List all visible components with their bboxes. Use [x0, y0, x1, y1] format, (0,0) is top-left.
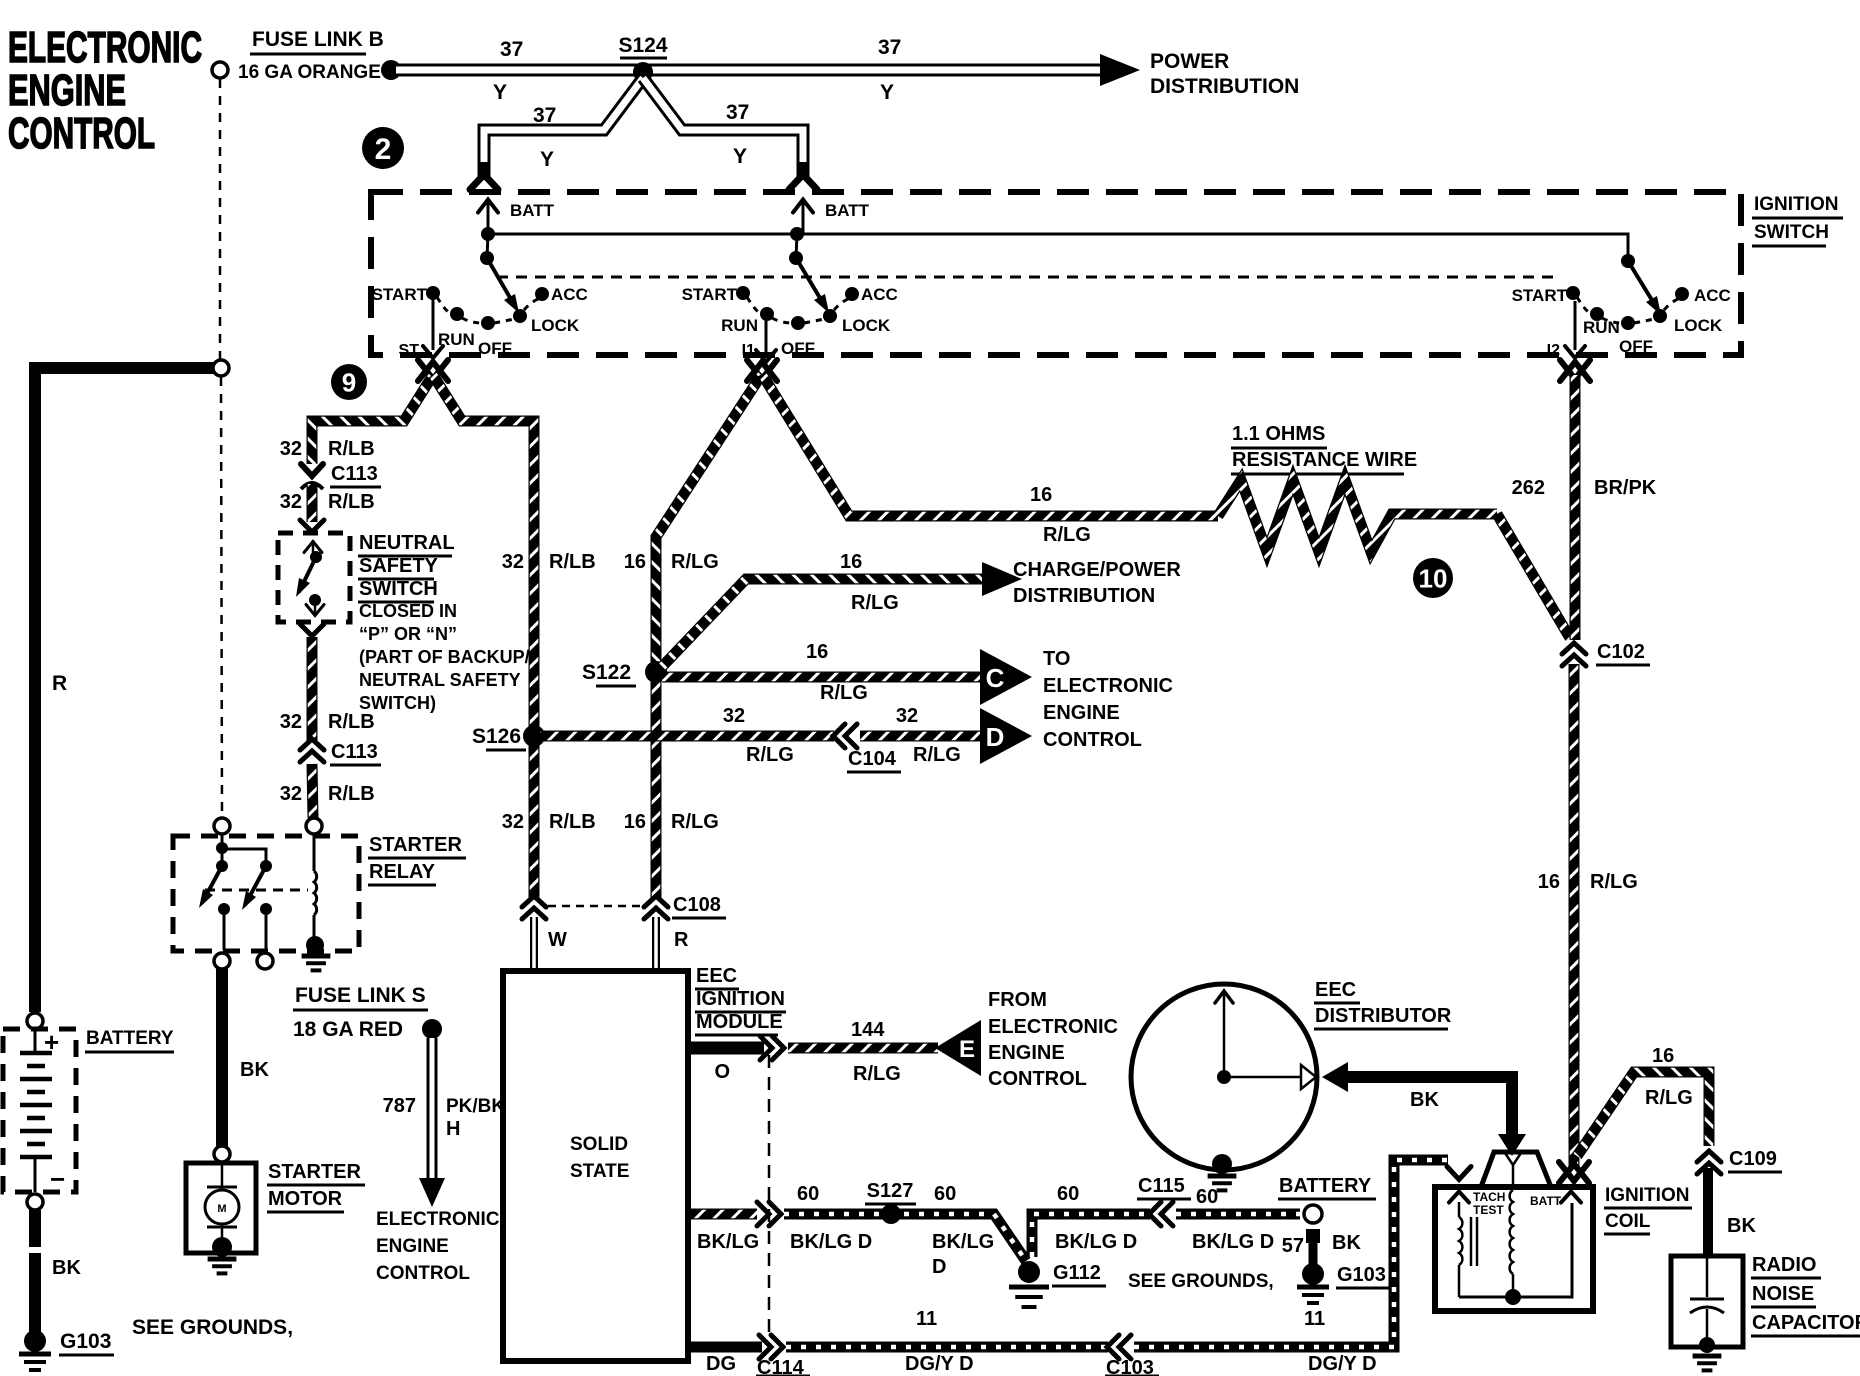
svg-text:CONTROL: CONTROL [376, 1263, 470, 1284]
svg-text:LOCK: LOCK [1674, 316, 1723, 335]
wire BK/LG D run 1 [784, 1214, 1026, 1261]
svg-text:RUN: RUN [721, 316, 758, 335]
connector C108 W [522, 896, 546, 919]
starter motor ground dot [212, 1237, 232, 1257]
connector C103 [1107, 1335, 1131, 1359]
svg-text:BK/LG D: BK/LG D [1192, 1231, 1274, 1253]
svg-text:ELECTRONIC: ELECTRONIC [376, 1209, 500, 1230]
svg-text:E: E [959, 1036, 975, 1063]
arrow terminal I2 [1560, 362, 1590, 381]
arrow terminal I1 [747, 362, 777, 381]
coil common dot [1505, 1289, 1521, 1305]
svg-text:57: 57 [1282, 1235, 1304, 1257]
svg-text:BATTERY: BATTERY [86, 1028, 174, 1049]
C108 dashed link [548, 905, 642, 908]
wire O stub [688, 1042, 764, 1055]
NSS bottom terminal [314, 600, 317, 614]
connector C113 upper [301, 464, 323, 476]
ground dot G112 [1018, 1261, 1040, 1283]
wire ST output arrow [432, 299, 435, 350]
wire BK/LG D run 3 [1176, 1209, 1300, 1220]
svg-text:NEUTRAL SAFETY: NEUTRAL SAFETY [359, 670, 521, 690]
wire DG/Y D run 2 [1134, 1160, 1448, 1347]
svg-text:BATT: BATT [510, 201, 555, 220]
svg-text:R: R [52, 672, 67, 695]
wire DG stub [688, 1342, 762, 1353]
svg-text:BK: BK [240, 1059, 269, 1081]
svg-text:144: 144 [851, 1019, 885, 1041]
svg-text:37: 37 [533, 104, 556, 127]
svg-text:32: 32 [502, 811, 524, 833]
svg-text:MOTOR: MOTOR [268, 1188, 343, 1210]
svg-text:DISTRIBUTOR: DISTRIBUTOR [1315, 1005, 1452, 1027]
svg-text:BK/LG: BK/LG [697, 1231, 759, 1253]
svg-text:D: D [986, 722, 1005, 752]
svg-text:R/LB: R/LB [328, 491, 375, 513]
relay coil [313, 834, 316, 871]
wire BK relay to starter motor [216, 969, 228, 1146]
svg-text:PK/BK: PK/BK [446, 1096, 505, 1117]
svg-text:SWITCH: SWITCH [359, 578, 438, 600]
svg-text:R/LG: R/LG [1645, 1087, 1693, 1109]
svg-text:CAPACITOR: CAPACITOR [1752, 1312, 1860, 1334]
svg-text:C: C [986, 663, 1005, 693]
svg-text:Y: Y [540, 148, 554, 171]
svg-text:R/LG: R/LG [913, 744, 961, 766]
svg-text:BATT: BATT [825, 201, 870, 220]
svg-text:2: 2 [375, 133, 392, 166]
wire resistance to C102 [1497, 514, 1570, 638]
svg-text:BK: BK [52, 1257, 81, 1279]
svg-text:60: 60 [1057, 1183, 1079, 1205]
ignition sw position dots cluster2 [736, 286, 750, 300]
svg-text:1.1 OHMS: 1.1 OHMS [1232, 423, 1325, 445]
NSS blade [299, 557, 316, 592]
svg-text:OFF: OFF [478, 339, 512, 358]
wire battery feed R [35, 368, 214, 1012]
svg-text:DISTRIBUTION: DISTRIBUTION [1013, 585, 1155, 607]
svg-text:EEC: EEC [1315, 979, 1356, 1001]
svg-text:DG/Y D: DG/Y D [905, 1353, 974, 1375]
svg-text:SEE GROUNDS,: SEE GROUNDS, [132, 1316, 293, 1339]
svg-text:FROM: FROM [988, 989, 1047, 1011]
svg-text:ACC: ACC [551, 285, 588, 304]
svg-text:ST: ST [399, 342, 420, 359]
NSS contact top [310, 551, 322, 563]
starter motor ground [208, 1259, 237, 1273]
wire S124 branch left to BATT [484, 78, 643, 172]
svg-text:TEST: TEST [1473, 1203, 1504, 1217]
relay contact dots top [216, 842, 228, 854]
ignition coil box [1435, 1187, 1593, 1311]
wire C104 to D arrow [860, 731, 980, 742]
svg-text:C115: C115 [1138, 1175, 1185, 1197]
arrowhead BK into distributor [1322, 1062, 1348, 1092]
starter relay dashed box [173, 836, 359, 951]
svg-text:ENGINE: ENGINE [1043, 702, 1120, 724]
distributor rotor arm [1224, 1076, 1301, 1079]
svg-text:S126: S126 [472, 725, 521, 748]
svg-text:CONTROL: CONTROL [988, 1068, 1087, 1090]
arrowhead into ignition switch left [478, 162, 491, 180]
splice S126 [523, 725, 545, 747]
svg-text:R/LG: R/LG [851, 592, 899, 614]
svg-text:G103: G103 [60, 1330, 111, 1353]
connector C115 [1149, 1202, 1173, 1226]
wire S124 branch right to BATT [643, 78, 803, 172]
neutral safety switch dashed box [278, 533, 350, 622]
svg-text:ELECTRONIC: ELECTRONIC [988, 1016, 1118, 1038]
svg-text:Y: Y [733, 145, 747, 168]
svg-text:R/LG: R/LG [746, 744, 794, 766]
arrow C [980, 649, 1032, 705]
arrow out of neutral safety switch [300, 624, 324, 636]
svg-text:(PART OF BACKUP/: (PART OF BACKUP/ [359, 647, 530, 667]
relay dashed actuator line [205, 889, 308, 892]
arrow terminal ST [418, 362, 448, 381]
svg-text:BK/LG: BK/LG [932, 1231, 994, 1253]
svg-text:I2: I2 [1547, 342, 1560, 359]
wire 16 R/LG to resistance wire [762, 374, 1218, 516]
node bus dot 1 [481, 227, 495, 241]
wire charge/power distribution [656, 579, 986, 673]
ignition switch blade 2 (BATT to LOCK) [796, 258, 826, 308]
wire drop to blade 2 [796, 234, 797, 258]
svg-text:37: 37 [500, 38, 523, 61]
svg-text:−: − [50, 1164, 65, 1194]
relay contact dots bottom [218, 903, 230, 915]
svg-text:TO: TO [1043, 648, 1070, 670]
svg-text:R/LB: R/LB [549, 551, 596, 573]
arrowhead into ignition switch right [797, 162, 810, 180]
svg-text:W: W [548, 929, 567, 951]
svg-text:C108: C108 [673, 894, 721, 916]
wire BATT terminal 1 [487, 198, 490, 234]
svg-text:TACH: TACH [1473, 1190, 1505, 1204]
ground dot G103 left [24, 1330, 46, 1352]
relay blade 2 [245, 866, 266, 905]
svg-text:START: START [1512, 286, 1568, 305]
wire ignition switch internal bus [488, 234, 1628, 259]
svg-text:S122: S122 [582, 661, 631, 684]
arrow electronic engine control [419, 1178, 445, 1207]
svg-text:C114: C114 [757, 1357, 805, 1376]
wire BK/LG stub [690, 1209, 757, 1220]
relay ground [302, 956, 331, 970]
connector C104 [833, 724, 857, 748]
svg-text:32: 32 [723, 705, 745, 727]
wire 262 BR/PK from I2 [1570, 375, 1581, 640]
ground symbol G112 [1009, 1287, 1049, 1307]
node blade pivot 1 [480, 251, 494, 265]
svg-text:DG/Y D: DG/Y D [1308, 1353, 1377, 1375]
svg-text:LOCK: LOCK [531, 316, 580, 335]
NSS contact bottom [309, 594, 321, 606]
svg-text:C104: C104 [848, 748, 897, 770]
battery terminal circle right [1304, 1205, 1322, 1223]
starter motor symbol [221, 1163, 224, 1187]
fuse link S splice dot [422, 1019, 442, 1039]
ignition switch dashed box [371, 192, 1741, 355]
svg-text:BATT: BATT [1530, 1194, 1562, 1208]
svg-text:NOISE: NOISE [1752, 1283, 1814, 1305]
svg-text:ACC: ACC [861, 285, 898, 304]
svg-text:32: 32 [280, 438, 302, 460]
svg-text:SAFETY: SAFETY [359, 555, 439, 577]
ignition coil cap trapezoid [1481, 1152, 1551, 1187]
svg-text:STARTER: STARTER [268, 1161, 362, 1183]
svg-text:OFF: OFF [1619, 337, 1653, 356]
wire 37 Y bus to power distribution [396, 64, 1106, 77]
svg-text:11: 11 [1304, 1308, 1325, 1330]
wire BK/LG D run 2 [1032, 1214, 1150, 1257]
svg-text:18 GA RED: 18 GA RED [293, 1018, 403, 1041]
connector C108 R [644, 896, 668, 919]
svg-text:BK: BK [1727, 1215, 1756, 1237]
svg-text:RESISTANCE WIRE: RESISTANCE WIRE [1232, 449, 1417, 471]
svg-text:37: 37 [726, 101, 749, 124]
arrow E to electronic engine control [935, 1020, 981, 1076]
svg-text:32: 32 [280, 783, 302, 805]
svg-text:ENGINE: ENGINE [376, 1236, 449, 1257]
coil primary winding [1458, 1202, 1461, 1217]
svg-text:BK: BK [1332, 1232, 1361, 1254]
svg-text:RADIO: RADIO [1752, 1254, 1816, 1276]
svg-text:Y: Y [493, 81, 507, 104]
splice S127 [881, 1204, 901, 1224]
svg-text:Y: Y [880, 81, 894, 104]
wire S126 to C104 [540, 731, 834, 742]
starter motor terminal circle [214, 1146, 230, 1162]
svg-text:11: 11 [916, 1308, 937, 1330]
wire 32 R/LB from ST [312, 375, 433, 464]
starter relay terminal circle right [306, 818, 322, 834]
svg-text:16: 16 [1652, 1045, 1674, 1067]
wire drop to blade 1 [487, 234, 488, 258]
wire BK distributor to coil [1340, 1077, 1512, 1136]
ignition switch blade 1 (BATT to LOCK) [487, 258, 516, 308]
svg-text:32: 32 [280, 711, 302, 733]
svg-text:G112: G112 [1053, 1262, 1101, 1284]
svg-text:S124: S124 [618, 34, 667, 57]
svg-text:BR/PK: BR/PK [1594, 477, 1657, 499]
radio noise capacitor box [1671, 1256, 1743, 1347]
wire BK battery to ground [29, 1210, 41, 1247]
svg-text:FUSE LINK B: FUSE LINK B [252, 28, 384, 51]
svg-text:CLOSED IN: CLOSED IN [359, 601, 457, 621]
arrow to POWER DISTRIBUTION [1100, 54, 1140, 86]
svg-text:DISTRIBUTION: DISTRIBUTION [1150, 75, 1299, 98]
node blade pivot 2 [789, 251, 803, 265]
splice S122 [645, 661, 667, 683]
svg-text:10: 10 [1419, 563, 1448, 593]
dashed tie line upper [219, 79, 222, 359]
svg-text:START: START [372, 285, 428, 304]
svg-text:R/LG: R/LG [1043, 524, 1091, 546]
wire 16 R/LG coil feed [1569, 664, 1580, 1166]
svg-text:MODULE: MODULE [696, 1011, 783, 1033]
capacitor ground dot [1699, 1337, 1715, 1353]
svg-text:NEUTRAL: NEUTRAL [359, 532, 455, 554]
svg-text:16: 16 [1538, 871, 1560, 893]
svg-text:16: 16 [624, 551, 646, 573]
connector module DG [759, 1335, 783, 1359]
wire 32 R/LB vertical from ST right [433, 375, 534, 898]
svg-text:ACC: ACC [1694, 286, 1731, 305]
svg-text:M: M [217, 1203, 226, 1215]
distributor center dot [1217, 1070, 1231, 1084]
svg-text:SEE GROUNDS,: SEE GROUNDS, [1128, 1271, 1274, 1292]
svg-text:LOCK: LOCK [842, 316, 891, 335]
svg-text:262: 262 [1512, 477, 1545, 499]
relay contact feed [221, 834, 224, 866]
svg-text:IGNITION: IGNITION [1754, 194, 1838, 215]
ignition sw position dots cluster1 [426, 286, 440, 300]
svg-text:RELAY: RELAY [369, 861, 436, 883]
svg-text:ELECTRONIC: ELECTRONIC [8, 23, 202, 72]
svg-text:787: 787 [383, 1095, 416, 1117]
wire R into module [652, 917, 660, 970]
ground dot G103 right [1302, 1263, 1324, 1285]
fusible link 57 BK [1306, 1229, 1320, 1243]
relay output circles [214, 953, 230, 969]
svg-text:BK/LG D: BK/LG D [1055, 1231, 1137, 1253]
svg-text:C109: C109 [1729, 1148, 1777, 1170]
dashed tie line lower [221, 377, 222, 817]
svg-text:COIL: COIL [1605, 1211, 1651, 1232]
svg-text:DG: DG [706, 1353, 736, 1375]
svg-text:32: 32 [896, 705, 918, 727]
svg-text:C102: C102 [1597, 641, 1645, 663]
svg-text:60: 60 [934, 1183, 956, 1205]
svg-text:R/LB: R/LB [328, 711, 375, 733]
svg-text:16: 16 [624, 811, 646, 833]
arrow charge/power [982, 562, 1022, 596]
capacitor ground [1693, 1356, 1722, 1370]
svg-text:I1: I1 [742, 342, 755, 359]
resistance wire zigzag [1218, 480, 1497, 552]
wire 32 R/LB below NSS [307, 637, 318, 742]
node circle on battery feed [213, 360, 229, 376]
svg-text:CONTROL: CONTROL [1043, 729, 1142, 751]
distributor ground [1208, 1176, 1237, 1190]
wire 32 R/LB to starter relay [312, 764, 313, 818]
starter relay terminal circle left [214, 818, 230, 834]
svg-text:IGNITION: IGNITION [696, 988, 785, 1010]
svg-text:37: 37 [878, 36, 901, 59]
distributor ground dot [1212, 1154, 1232, 1174]
svg-text:D: D [932, 1256, 946, 1278]
ignition sw position dots cluster3 [1566, 286, 1580, 300]
title ELECTRONIC ENGINE CONTROL [8, 23, 202, 158]
svg-text:OFF: OFF [781, 339, 815, 358]
svg-text:IGNITION: IGNITION [1605, 1185, 1689, 1206]
coil core [1470, 1217, 1473, 1266]
wire BATT terminal 2 [802, 198, 805, 234]
NSS top terminal [312, 540, 315, 556]
svg-text:16: 16 [840, 551, 862, 573]
svg-text:CONTROL: CONTROL [8, 109, 155, 158]
svg-text:BK: BK [1410, 1089, 1439, 1111]
capacitor C1 [1706, 1256, 1709, 1297]
arrow into neutral safety switch [300, 520, 324, 532]
svg-text:RUN: RUN [1583, 318, 1620, 337]
relay coil ground dot [306, 936, 324, 954]
connector O [760, 1036, 784, 1060]
node blade pivot 3 [1621, 254, 1635, 268]
splice S124 [633, 62, 653, 82]
svg-text:ENGINE: ENGINE [988, 1042, 1065, 1064]
svg-text:SWITCH): SWITCH) [359, 693, 436, 713]
ground symbol G103 left [19, 1354, 51, 1370]
EEC distributor circle [1131, 984, 1317, 1170]
wire DG/Y D run 1 [786, 1342, 1108, 1353]
svg-text:H: H [446, 1118, 460, 1140]
node splice at fuse link B [381, 60, 401, 80]
dashed connector line C114 [768, 1055, 771, 1340]
connector C109 [1697, 1151, 1721, 1174]
coil TACH terminal arrow [1449, 1192, 1469, 1203]
svg-text:POWER: POWER [1150, 50, 1229, 73]
coil BATT terminal arrow [1561, 1192, 1581, 1203]
wire 32 R/LB to NSS [307, 484, 318, 522]
terminal circle fuse link B [212, 62, 228, 78]
svg-text:R/LB: R/LB [549, 811, 596, 833]
battery terminal circle bottom [27, 1194, 43, 1210]
arrow 16R/LG into coil BATT [1559, 1164, 1589, 1183]
svg-text:R/LB: R/LB [328, 438, 375, 460]
connector C102 [1562, 643, 1586, 666]
svg-text:C113: C113 [331, 463, 378, 485]
wire I2 output arrow [1574, 301, 1577, 350]
svg-text:32: 32 [280, 491, 302, 513]
circled 10 [1413, 558, 1453, 598]
svg-text:60: 60 [797, 1183, 819, 1205]
svg-text:60: 60 [1196, 1186, 1218, 1208]
connector module BK/LG [757, 1202, 781, 1226]
svg-text:R/LG: R/LG [671, 551, 719, 573]
svg-text:BATTERY: BATTERY [1279, 1175, 1372, 1197]
svg-text:16: 16 [806, 641, 828, 663]
svg-text:START: START [682, 285, 738, 304]
wire 787 PK/BK [427, 1038, 438, 1180]
svg-text:C113: C113 [331, 741, 378, 763]
relay blade 1 [202, 866, 222, 903]
wire 16 R/LG branch to C109 [1577, 1072, 1709, 1156]
svg-text:BK/LG D: BK/LG D [790, 1231, 872, 1253]
svg-text:R/LB: R/LB [328, 783, 375, 805]
node bus dot 2 [790, 227, 804, 241]
coil bottom rail [1459, 1203, 1572, 1297]
svg-text:R/LG: R/LG [820, 682, 868, 704]
svg-text:EEC: EEC [696, 965, 737, 987]
svg-text:O: O [714, 1061, 730, 1083]
ignition switch inner dashed line [497, 276, 1556, 279]
coil secondary winding [1510, 1190, 1513, 1274]
wire to C arrow [662, 672, 980, 683]
svg-text:9: 9 [342, 367, 356, 397]
EEC ignition module box (solid state) [503, 971, 688, 1361]
svg-text:32: 32 [502, 551, 524, 573]
svg-text:C103: C103 [1106, 1357, 1154, 1376]
starter motor box [186, 1163, 256, 1253]
svg-text:R/LG: R/LG [1590, 871, 1638, 893]
distributor shaft vertical [1223, 990, 1226, 1077]
circled 9 [331, 364, 367, 400]
svg-text:S127: S127 [867, 1180, 914, 1202]
battery cells [34, 1029, 37, 1051]
wire I1 output arrow [765, 318, 768, 352]
